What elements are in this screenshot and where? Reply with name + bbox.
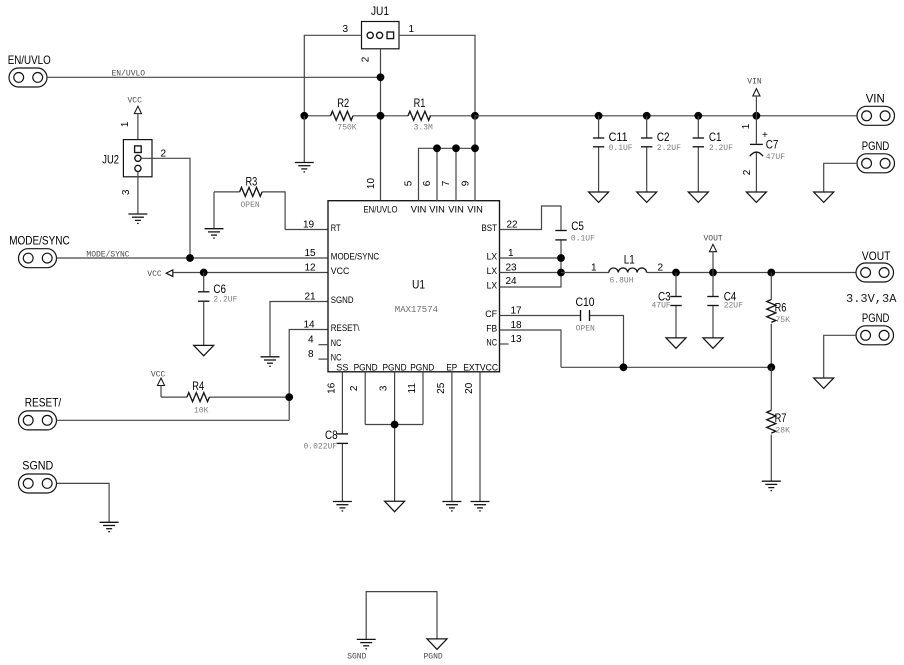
svg-text:C10: C10: [576, 295, 595, 309]
wire PGND pin11: [407, 372, 423, 425]
svg-text:4: 4: [308, 335, 314, 346]
svg-text:JU1: JU1: [371, 4, 389, 18]
svg-text:1: 1: [591, 262, 597, 273]
svg-text:PGND: PGND: [354, 362, 378, 373]
svg-text:R3: R3: [246, 175, 258, 189]
ground below C6: [194, 345, 214, 355]
svg-text:LX: LX: [487, 280, 498, 291]
resistor R7 28K: [767, 367, 790, 481]
svg-text:PGND: PGND: [862, 311, 890, 325]
svg-text:PGND: PGND: [383, 362, 407, 373]
svg-text:22UF: 22UF: [724, 302, 743, 311]
svg-text:VIN: VIN: [411, 205, 427, 216]
node C1 tap: [694, 112, 702, 120]
svg-text:5: 5: [403, 180, 414, 186]
svg-text:MODE/SYNC: MODE/SYNC: [9, 233, 70, 247]
node C4 tap: [709, 269, 717, 277]
wire LX pin24: [500, 258, 562, 287]
wire PGND pin3: [379, 372, 395, 502]
svg-text:6.8UH: 6.8UH: [610, 277, 634, 286]
capacitor C4 22UF: [707, 273, 743, 338]
wire SGND PGND bridge: [366, 592, 437, 639]
svg-text:75K: 75K: [776, 316, 791, 325]
ground below C2: [637, 192, 657, 202]
connector PGND top: [857, 139, 895, 173]
wire MODE/SYNC net: [57, 248, 329, 259]
svg-text:0.1UF: 0.1UF: [571, 235, 595, 244]
svg-text:C5: C5: [571, 219, 584, 233]
power VCC arrow at pin12: [147, 270, 173, 279]
wire JU1 pin3 to R2 left: [304, 35, 361, 116]
svg-text:2.2UF: 2.2UF: [657, 144, 681, 153]
wire PGND top to ground: [824, 163, 857, 192]
svg-text:SGND: SGND: [22, 459, 53, 473]
ground PGND at bridge: [424, 639, 448, 662]
connector VOUT: [856, 249, 894, 282]
svg-text:47UF: 47UF: [766, 153, 785, 162]
svg-text:R6: R6: [775, 300, 787, 314]
ground at pin21: [261, 357, 280, 366]
svg-text:3: 3: [379, 385, 390, 391]
op-amp U1 MAX17574 body: [328, 201, 500, 372]
ground below JU2: [128, 214, 147, 223]
svg-text:BST: BST: [481, 223, 497, 234]
capacitor C8 0.022UF: [304, 428, 349, 502]
capacitor C1 2.2UF: [693, 116, 734, 192]
ground below EXTVCC: [471, 502, 490, 511]
node C3 tap: [672, 269, 680, 277]
node R6 R7 FB junction: [767, 363, 775, 371]
power VIN arrow: [747, 78, 762, 116]
wire SGND net to ground: [57, 483, 110, 522]
svg-text:1: 1: [741, 123, 752, 129]
svg-text:6: 6: [422, 180, 433, 186]
svg-text:17: 17: [511, 306, 523, 317]
connector MODE/SYNC: [9, 233, 70, 267]
wire VIN bus pins 5-9: [419, 116, 476, 201]
svg-text:3.3M: 3.3M: [414, 124, 433, 133]
svg-text:VIN: VIN: [448, 205, 464, 216]
ground below C7: [746, 192, 766, 202]
svg-text:C8: C8: [325, 428, 338, 442]
power VCC above JU2: [120, 97, 142, 146]
ground below R7: [762, 481, 781, 490]
svg-text:1: 1: [120, 121, 131, 127]
svg-text:VOUT: VOUT: [704, 235, 723, 244]
node C10 FB junction: [620, 363, 628, 371]
svg-text:2: 2: [349, 385, 360, 391]
svg-text:9: 9: [460, 180, 471, 186]
wire LX pin23: [500, 262, 562, 273]
capacitor C3 47UF: [652, 273, 682, 338]
svg-text:VCC: VCC: [147, 270, 162, 279]
connector PGND mid: [856, 311, 894, 345]
svg-text:23: 23: [506, 262, 518, 273]
ground below EP: [442, 502, 461, 511]
ground below C3: [666, 338, 686, 348]
ground below R2 left: [295, 163, 314, 172]
pin NC8 stub: [319, 358, 329, 360]
svg-text:LX: LX: [487, 251, 498, 262]
svg-text:NC: NC: [331, 338, 342, 349]
wire PGND mid to ground: [824, 335, 856, 378]
svg-text:3: 3: [121, 189, 132, 195]
connector SGND: [19, 459, 57, 493]
wire JU1 pin1 to VIN rail: [399, 35, 475, 116]
wire BST pin22: [500, 206, 562, 231]
node C11 tap: [595, 112, 603, 120]
node PGND bus junction: [391, 421, 399, 429]
ground at PGND top: [814, 192, 834, 202]
svg-text:RT: RT: [331, 223, 341, 234]
capacitor C11 0.1UF: [593, 116, 633, 192]
svg-text:24: 24: [506, 276, 518, 287]
svg-text:R7: R7: [775, 411, 787, 425]
svg-text:EXTVCC: EXTVCC: [463, 362, 498, 373]
wire JU1 pin2 down to EN/UVLO node: [380, 49, 382, 116]
svg-text:15: 15: [305, 248, 317, 259]
svg-text:VIN: VIN: [467, 205, 483, 216]
wire R2 left to ground: [303, 116, 305, 163]
svg-text:21: 21: [305, 292, 317, 303]
resistor R3 OPEN: [214, 175, 285, 230]
svg-text:RESET/: RESET/: [25, 396, 62, 410]
svg-text:PGND: PGND: [424, 653, 443, 662]
svg-text:R1: R1: [414, 96, 426, 110]
node VIN pin9: [471, 144, 479, 152]
svg-text:EP: EP: [446, 362, 457, 373]
svg-text:RESET\: RESET\: [331, 323, 360, 334]
wire SGND pin21 to ground: [270, 292, 328, 357]
svg-text:8: 8: [308, 349, 314, 360]
node MODE/SYNC junction: [186, 254, 194, 262]
svg-text:FB: FB: [486, 323, 497, 334]
svg-text:EN/UVLO: EN/UVLO: [112, 70, 146, 79]
wire EP pin25: [436, 372, 452, 502]
svg-text:1: 1: [409, 24, 415, 35]
wire RT pin19: [285, 220, 328, 231]
svg-text:PGND: PGND: [410, 362, 434, 373]
wire VIN rail: [475, 115, 857, 117]
svg-text:C7: C7: [766, 138, 779, 152]
svg-text:14: 14: [304, 320, 316, 331]
wire U1 pin10: [380, 116, 382, 201]
svg-text:VCC: VCC: [128, 97, 143, 106]
svg-text:2.2UF: 2.2UF: [213, 295, 237, 304]
capacitor C6 2.2UF: [198, 273, 238, 346]
svg-text:OPEN: OPEN: [241, 201, 260, 210]
node VCC C6 junction: [200, 269, 208, 277]
svg-text:3: 3: [343, 24, 349, 35]
resistor R6 75K: [767, 273, 790, 368]
node C7 tap: [753, 112, 761, 120]
svg-text:NC: NC: [486, 337, 497, 348]
svg-text:SGND: SGND: [331, 295, 354, 306]
ground below C4: [703, 338, 723, 348]
wire EN/UVLO net: [47, 70, 381, 79]
wire CF pin17 to C10: [500, 306, 581, 317]
wire PGND pin2: [349, 372, 365, 425]
svg-text:SGND: SGND: [347, 653, 366, 662]
svg-text:1: 1: [508, 248, 514, 259]
ground below C11: [589, 192, 609, 202]
svg-text:C6: C6: [213, 282, 226, 296]
capacitor C10 OPEN: [576, 295, 624, 368]
svg-text:0.022UF: 0.022UF: [304, 443, 338, 452]
svg-text:2.2UF: 2.2UF: [709, 144, 733, 153]
svg-text:SS: SS: [336, 362, 348, 373]
ground at PGND mid: [814, 378, 834, 388]
svg-text:CF: CF: [485, 309, 497, 320]
node LX pin1 junction: [557, 254, 565, 262]
svg-text:MODE/SYNC: MODE/SYNC: [86, 250, 129, 259]
svg-text:VCC: VCC: [151, 370, 166, 379]
resistor R1 3.3M: [381, 96, 476, 133]
ground below PGND pin3: [385, 501, 405, 511]
svg-text:0.1UF: 0.1UF: [609, 144, 633, 153]
svg-text:25: 25: [436, 382, 447, 394]
pin NC4 stub: [319, 344, 329, 346]
node R4 RESET junction: [285, 393, 293, 401]
svg-text:10: 10: [366, 178, 377, 190]
svg-text:2: 2: [742, 169, 753, 175]
wire FB bus: [561, 366, 771, 368]
svg-text:13: 13: [511, 334, 523, 345]
node VIN rail left junction: [471, 112, 479, 120]
node VIN pin6: [433, 144, 441, 152]
connector VIN: [857, 92, 895, 126]
ground at R3 left: [205, 229, 224, 238]
wire FB pin18: [500, 320, 562, 367]
svg-text:L1: L1: [624, 252, 635, 266]
svg-text:16: 16: [326, 382, 337, 394]
resistor R4 10K: [161, 379, 289, 416]
power VCC arrow at R4: [151, 370, 166, 397]
wire JU2 pin3 to ground: [137, 172, 139, 215]
wire JU2 pin2 to MODE/SYNC node: [141, 158, 190, 258]
wire PGND bus: [365, 424, 423, 426]
svg-text:VIN: VIN: [429, 205, 445, 216]
node R6 tap: [767, 269, 775, 277]
wire LX pin1: [500, 248, 562, 259]
capacitor C7 47UF polarized: [741, 116, 785, 192]
svg-text:OPEN: OPEN: [576, 325, 595, 334]
svg-text:VOUT: VOUT: [862, 249, 891, 263]
svg-text:2: 2: [658, 262, 664, 273]
node LX pin23 junction: [557, 269, 565, 277]
svg-text:C2: C2: [657, 130, 670, 144]
wire RESET/ net: [57, 419, 290, 421]
connector RESET/: [19, 396, 62, 430]
svg-text:R2: R2: [337, 96, 349, 110]
svg-text:U1: U1: [412, 278, 425, 292]
svg-text:MAX17574: MAX17574: [395, 305, 438, 315]
svg-text:22: 22: [507, 220, 519, 231]
connector EN/UVLO: [8, 53, 51, 87]
inductor L1 6.8UH: [561, 252, 856, 285]
node R2 left junction: [300, 112, 308, 120]
svg-text:10K: 10K: [194, 407, 209, 416]
resistor R2 750K: [304, 96, 380, 133]
ground SGND at bridge: [347, 639, 376, 661]
svg-text:3.3V,3A: 3.3V,3A: [846, 292, 897, 306]
svg-text:11: 11: [407, 383, 418, 394]
node EN/UVLO pin10 junction: [377, 112, 385, 120]
svg-text:750K: 750K: [337, 124, 356, 133]
power VOUT arrow: [704, 235, 723, 273]
ground below C8: [333, 502, 352, 511]
wire SS pin16: [326, 372, 342, 434]
svg-text:19: 19: [303, 220, 315, 231]
svg-text:18: 18: [511, 320, 523, 331]
jumper JU2: [102, 140, 166, 195]
svg-text:20: 20: [464, 382, 475, 394]
wire VCC pin12: [173, 263, 328, 274]
node C2 tap: [643, 112, 651, 120]
svg-text:EN/UVLO: EN/UVLO: [364, 205, 398, 216]
svg-text:JU2: JU2: [102, 153, 119, 167]
ground below C1: [688, 192, 708, 202]
jumper JU1: [343, 4, 415, 62]
wire R3 left to ground: [213, 192, 215, 229]
wire RESET pin14 down: [289, 320, 328, 421]
svg-text:7: 7: [441, 180, 452, 186]
ground at SGND connector: [100, 522, 119, 531]
capacitor C2 2.2UF: [641, 116, 681, 192]
svg-text:VIN: VIN: [866, 92, 885, 106]
wire EXTVCC pin20: [464, 372, 480, 502]
svg-text:12: 12: [305, 263, 317, 274]
svg-text:C1: C1: [709, 130, 722, 144]
svg-text:LX: LX: [487, 266, 498, 277]
svg-text:VIN: VIN: [747, 78, 762, 87]
pin NC13 stub: [500, 334, 523, 345]
svg-text:2: 2: [361, 56, 372, 62]
svg-text:28K: 28K: [776, 427, 791, 436]
node VIN pin7: [452, 144, 460, 152]
svg-text:R4: R4: [192, 379, 204, 393]
node EN/UVLO junction: [377, 73, 385, 81]
svg-text:PGND: PGND: [862, 139, 890, 153]
svg-text:VCC: VCC: [331, 266, 350, 277]
svg-text:MODE/SYNC: MODE/SYNC: [331, 252, 379, 263]
svg-text:47UF: 47UF: [652, 302, 671, 311]
svg-text:EN/UVLO: EN/UVLO: [8, 53, 51, 67]
svg-text:C11: C11: [609, 130, 628, 144]
capacitor C5 0.1UF: [555, 219, 595, 258]
